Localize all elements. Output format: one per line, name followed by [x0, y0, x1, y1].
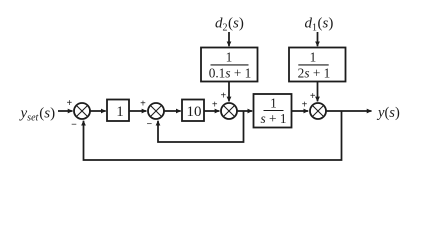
svg-text:1: 1	[310, 49, 317, 64]
svg-text:1: 1	[226, 49, 233, 64]
svg-text:+: +	[212, 100, 218, 111]
svg-text:+: +	[140, 98, 146, 109]
svg-text:1: 1	[116, 104, 124, 120]
wire H1 to summer S4	[317, 82, 319, 102]
block H2 transfer 1/(0.1s+1)	[201, 48, 258, 82]
wire S1 to block G1	[91, 110, 106, 112]
svg-text:1: 1	[270, 96, 277, 111]
wire G1 to summer S2	[129, 110, 146, 112]
summing junction S1	[74, 103, 90, 119]
wire d2 label to block H2	[228, 32, 230, 46]
svg-text:−: −	[71, 119, 77, 130]
svg-text:s + 1: s + 1	[261, 111, 287, 126]
svg-text:d2(s): d2(s)	[215, 16, 244, 34]
wire inner feedback loop to S2	[158, 111, 244, 142]
summing junction S3	[221, 103, 237, 119]
svg-text:10: 10	[187, 104, 202, 120]
summing junction S4	[310, 103, 326, 119]
svg-text:2s + 1: 2s + 1	[298, 65, 331, 80]
summing junction S2	[148, 103, 164, 119]
wire H2 to summer S3	[228, 82, 230, 102]
svg-text:y(s): y(s)	[376, 105, 400, 121]
wire S4 to output y(s)	[327, 110, 372, 112]
wire S2 to block G2	[165, 110, 181, 112]
wire outer feedback loop to S1	[84, 111, 342, 160]
block G2 gain 10	[182, 100, 204, 122]
block H1 transfer 1/(2s+1)	[289, 48, 346, 82]
svg-text:+: +	[302, 100, 308, 111]
block G1 gain 1	[107, 100, 129, 122]
svg-text:−: −	[146, 119, 152, 130]
wire G3 to summer S4	[292, 110, 309, 112]
wire d1 label to block H1	[317, 32, 319, 46]
svg-text:0.1s + 1: 0.1s + 1	[209, 65, 252, 80]
svg-text:+: +	[310, 91, 316, 102]
svg-text:d1(s): d1(s)	[305, 16, 334, 34]
svg-text:+: +	[221, 91, 227, 102]
wire S3 to block G3 with tap node	[238, 110, 253, 112]
wire G2 to summer S3	[204, 110, 219, 112]
block G3 transfer 1/(s+1)	[254, 94, 292, 128]
wire y_set to summer S1	[58, 110, 73, 112]
svg-text:+: +	[66, 98, 72, 109]
